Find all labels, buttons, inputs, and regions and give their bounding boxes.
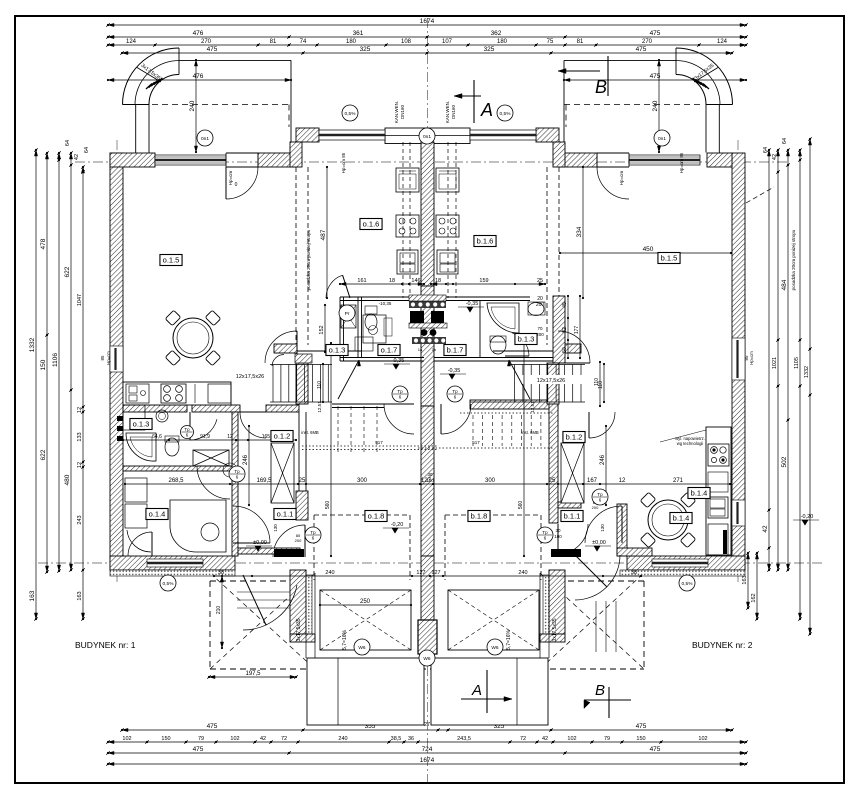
svg-text:1105: 1105	[794, 357, 800, 369]
svg-text:38,5: 38,5	[391, 736, 402, 742]
svg-text:38: 38	[631, 570, 637, 576]
svg-text:Hp=cm: Hp=cm	[749, 351, 754, 365]
svg-text:1047: 1047	[77, 294, 83, 306]
svg-text:±0,00: ±0,00	[253, 540, 267, 546]
svg-text:12: 12	[77, 462, 83, 468]
svg-text:110: 110	[317, 381, 323, 389]
svg-text:560: 560	[518, 501, 524, 510]
svg-text:79: 79	[604, 736, 610, 742]
svg-text:b.1.6: b.1.6	[477, 237, 494, 246]
svg-text:42: 42	[74, 154, 80, 160]
svg-text:110: 110	[594, 378, 600, 386]
svg-text:246: 246	[600, 454, 606, 465]
svg-text:KAN.WEN.: KAN.WEN.	[445, 101, 450, 123]
svg-text:200: 200	[295, 538, 302, 543]
svg-text:1b: 1b	[432, 347, 437, 352]
svg-text:484: 484	[781, 279, 788, 290]
svg-text:A: A	[480, 100, 493, 120]
svg-text:-10,35: -10,35	[379, 301, 392, 306]
svg-text:30: 30	[555, 528, 561, 533]
svg-text:o.1.7: o.1.7	[381, 346, 398, 355]
svg-text:162: 162	[751, 593, 757, 602]
svg-text:5,7=16%: 5,7=16%	[506, 630, 512, 650]
svg-text:81: 81	[270, 39, 277, 45]
svg-text:180: 180	[497, 39, 508, 45]
svg-text:167: 167	[587, 478, 598, 484]
svg-text:1021: 1021	[772, 357, 778, 369]
svg-text:475: 475	[650, 746, 661, 753]
svg-text:334: 334	[576, 226, 583, 237]
svg-text:DN160: DN160	[400, 105, 405, 120]
svg-text:133: 133	[77, 432, 83, 441]
svg-text:72: 72	[281, 736, 287, 742]
svg-text:-0,35: -0,35	[392, 358, 405, 364]
svg-text:622: 622	[40, 449, 47, 460]
svg-text:240: 240	[325, 570, 334, 576]
svg-text:130: 130	[273, 524, 278, 532]
svg-text:177: 177	[574, 326, 580, 335]
svg-text:-0,35: -0,35	[448, 368, 461, 374]
svg-text:12: 12	[619, 478, 626, 484]
svg-text:243: 243	[77, 515, 83, 524]
svg-text:362: 362	[491, 30, 502, 37]
svg-text:0n1: 0n1	[658, 136, 666, 142]
svg-text:27: 27	[424, 722, 430, 728]
svg-text:B: B	[595, 77, 607, 97]
svg-text:200: 200	[592, 505, 599, 510]
svg-text:250: 250	[360, 599, 371, 605]
svg-text:150: 150	[40, 359, 47, 370]
svg-text:475: 475	[636, 46, 647, 53]
svg-text:b.1.8: b.1.8	[471, 512, 488, 521]
svg-text:posadzka 20cm ponizej stropu: posadzka 20cm ponizej stropu	[306, 229, 311, 290]
svg-text:100: 100	[426, 478, 434, 483]
svg-text:243,5: 243,5	[457, 736, 471, 742]
svg-text:inst. 6MB: inst. 6MB	[301, 430, 319, 435]
svg-text:152: 152	[319, 325, 325, 334]
svg-text:161: 161	[357, 278, 366, 284]
svg-text:475: 475	[193, 746, 204, 753]
svg-text:B: B	[595, 682, 605, 699]
svg-text:0: 0	[235, 182, 238, 188]
svg-text:Pr: Pr	[345, 311, 350, 317]
svg-text:300: 300	[357, 478, 368, 484]
svg-text:o.1.1: o.1.1	[277, 510, 294, 519]
svg-text:270: 270	[642, 39, 653, 45]
svg-text:Hp=cm: Hp=cm	[106, 351, 111, 365]
svg-text:0n1: 0n1	[423, 134, 431, 140]
svg-text:200: 200	[536, 302, 545, 308]
svg-text:210: 210	[216, 606, 222, 615]
svg-text:102: 102	[567, 736, 576, 742]
svg-text:12x17,5x26: 12x17,5x26	[236, 374, 264, 380]
svg-text:150: 150	[636, 736, 645, 742]
svg-text:79: 79	[198, 736, 204, 742]
svg-text:36: 36	[408, 736, 414, 742]
svg-text:0,5%: 0,5%	[500, 111, 512, 117]
svg-text:127: 127	[431, 570, 440, 576]
svg-text:81: 81	[577, 39, 584, 45]
svg-text:-0,20: -0,20	[801, 514, 814, 520]
svg-text:3x17,5x35: 3x17,5x35	[296, 618, 302, 641]
svg-text:475: 475	[207, 46, 218, 53]
svg-text:268,5: 268,5	[168, 478, 184, 484]
svg-text:BUDYNEK nr: 1: BUDYNEK nr: 1	[75, 640, 136, 650]
svg-text:25: 25	[299, 478, 306, 484]
svg-text:325: 325	[360, 46, 371, 53]
svg-text:b.1.7: b.1.7	[447, 346, 464, 355]
svg-text:12: 12	[227, 434, 233, 440]
svg-text:476: 476	[193, 73, 204, 80]
svg-text:o.1.4: o.1.4	[149, 510, 166, 519]
svg-text:64: 64	[84, 147, 90, 153]
svg-text:163: 163	[742, 575, 748, 584]
svg-text:Tp: Tp	[397, 389, 403, 394]
svg-text:42: 42	[762, 525, 769, 533]
svg-text:517: 517	[375, 440, 383, 445]
svg-text:±0,00: ±0,00	[592, 540, 606, 546]
svg-text:240: 240	[518, 570, 527, 576]
svg-text:246: 246	[243, 454, 249, 465]
svg-text:517: 517	[472, 440, 480, 445]
svg-text:Tp: Tp	[184, 427, 190, 432]
svg-text:0,5%: 0,5%	[163, 581, 175, 587]
svg-text:b.1.4: b.1.4	[691, 489, 708, 498]
svg-text:450: 450	[643, 246, 654, 253]
svg-text:75: 75	[547, 39, 554, 45]
svg-text:102: 102	[122, 736, 131, 742]
svg-text:70: 70	[537, 326, 543, 331]
svg-text:0,5%: 0,5%	[345, 111, 357, 117]
svg-text:o.1.5: o.1.5	[163, 256, 180, 265]
svg-text:Hp=cm: Hp=cm	[619, 171, 624, 186]
svg-text:Tp: Tp	[310, 530, 316, 535]
svg-text:3x17,5x35: 3x17,5x35	[552, 618, 558, 641]
svg-text:0,5%: 0,5%	[682, 581, 694, 587]
svg-text:361: 361	[353, 30, 364, 37]
svg-text:146: 146	[411, 278, 420, 284]
svg-text:163: 163	[77, 591, 83, 600]
svg-text:1106: 1106	[52, 353, 59, 367]
svg-text:475: 475	[636, 723, 647, 730]
svg-text:Tp: Tp	[452, 389, 458, 394]
svg-text:25: 25	[537, 278, 543, 284]
svg-text:Hp=cm 85: Hp=cm 85	[341, 152, 346, 173]
svg-text:38: 38	[218, 570, 224, 576]
svg-text:270: 270	[201, 39, 212, 45]
svg-text:159: 159	[479, 278, 488, 284]
svg-text:300: 300	[485, 478, 496, 484]
svg-text:487: 487	[320, 229, 327, 240]
svg-text:wg technologii: wg technologii	[677, 441, 704, 446]
svg-text:1674: 1674	[420, 757, 435, 764]
svg-text:12,51: 12,51	[317, 401, 322, 413]
svg-text:42: 42	[542, 736, 548, 742]
svg-text:W6: W6	[423, 656, 431, 662]
svg-text:posadzka 20cm ponizej stropu: posadzka 20cm ponizej stropu	[791, 229, 796, 290]
svg-text:o.1.6: o.1.6	[363, 220, 380, 229]
svg-text:1332: 1332	[804, 366, 810, 378]
svg-text:127: 127	[416, 570, 425, 576]
svg-text:Tp: Tp	[234, 469, 240, 474]
svg-text:A: A	[471, 682, 482, 699]
svg-text:o.1.2: o.1.2	[274, 432, 291, 441]
svg-text:476: 476	[193, 30, 204, 37]
svg-text:42: 42	[260, 736, 266, 742]
svg-text:W6: W6	[358, 645, 366, 651]
svg-text:475: 475	[207, 723, 218, 730]
svg-text:107: 107	[442, 39, 453, 45]
svg-text:124: 124	[717, 39, 728, 45]
svg-text:325: 325	[484, 46, 495, 53]
svg-text:100: 100	[554, 534, 562, 539]
svg-text:724: 724	[422, 746, 433, 753]
svg-text:5,7=16%: 5,7=16%	[342, 630, 348, 650]
svg-text:478: 478	[40, 238, 47, 249]
svg-text:-0,35: -0,35	[466, 301, 479, 307]
svg-text:82: 82	[562, 327, 568, 333]
svg-text:b.1.3: b.1.3	[518, 335, 535, 344]
svg-text:502: 502	[781, 456, 788, 467]
svg-text:o.1.3: o.1.3	[329, 346, 346, 355]
svg-text:18: 18	[435, 278, 441, 284]
svg-text:72: 72	[520, 736, 526, 742]
svg-text:12,51: 12,51	[530, 401, 535, 413]
svg-text:91,9: 91,9	[200, 434, 210, 440]
svg-text:200: 200	[536, 332, 544, 337]
svg-text:64: 64	[763, 147, 769, 153]
svg-text:45: 45	[562, 302, 568, 308]
svg-text:inst. 6MB: inst. 6MB	[521, 430, 539, 435]
svg-text:150: 150	[161, 736, 170, 742]
svg-text:169,5: 169,5	[256, 478, 272, 484]
svg-text:30: 30	[427, 472, 433, 477]
svg-text:85: 85	[100, 355, 105, 361]
svg-text:12: 12	[77, 407, 83, 413]
svg-text:Tp: Tp	[597, 492, 603, 497]
svg-text:271: 271	[673, 478, 684, 484]
svg-text:74: 74	[300, 39, 307, 45]
svg-text:108: 108	[401, 39, 412, 45]
svg-text:124: 124	[126, 39, 137, 45]
svg-text:1332: 1332	[29, 337, 36, 352]
svg-text:-0,20: -0,20	[391, 522, 404, 528]
svg-text:64: 64	[782, 138, 788, 144]
svg-text:b.1.2: b.1.2	[566, 433, 583, 442]
svg-text:o.1.8: o.1.8	[368, 512, 385, 521]
svg-text:18: 18	[389, 278, 395, 284]
svg-text:240: 240	[189, 100, 196, 111]
svg-text:BUDYNEK nr: 2: BUDYNEK nr: 2	[692, 640, 753, 650]
svg-text:102: 102	[230, 736, 239, 742]
svg-text:b.1.5: b.1.5	[661, 254, 678, 263]
svg-text:KAN.WEN.: KAN.WEN.	[394, 101, 399, 123]
svg-text:102: 102	[698, 736, 707, 742]
svg-text:480: 480	[64, 474, 71, 485]
svg-text:b.1.4: b.1.4	[673, 514, 690, 523]
svg-text:1674: 1674	[420, 18, 435, 25]
svg-text:197,5: 197,5	[245, 671, 261, 677]
svg-text:o.1.3: o.1.3	[133, 420, 150, 429]
svg-text:0n1: 0n1	[201, 136, 209, 142]
svg-text:DN160: DN160	[451, 105, 456, 120]
svg-text:42: 42	[772, 154, 778, 160]
svg-text:64,6: 64,6	[152, 434, 162, 440]
svg-text:Hp=cm 85: Hp=cm 85	[679, 152, 684, 173]
svg-text:475: 475	[650, 30, 661, 37]
svg-text:12x17,5x26: 12x17,5x26	[537, 378, 565, 384]
svg-text:b.1.1: b.1.1	[564, 512, 581, 521]
svg-text:163: 163	[29, 590, 36, 601]
svg-text:560: 560	[325, 501, 331, 510]
svg-text:Hp=cm: Hp=cm	[228, 171, 233, 186]
svg-text:130: 130	[600, 524, 605, 532]
svg-text:25: 25	[549, 478, 556, 484]
svg-text:240: 240	[652, 100, 659, 111]
svg-text:1a: 1a	[418, 347, 423, 352]
svg-text:180: 180	[346, 39, 357, 45]
svg-text:64: 64	[65, 140, 71, 146]
svg-text:240: 240	[338, 736, 347, 742]
svg-text:622: 622	[64, 266, 71, 277]
svg-text:W6: W6	[491, 645, 499, 651]
svg-text:50: 50	[562, 347, 568, 353]
svg-text:Tp: Tp	[542, 530, 548, 535]
